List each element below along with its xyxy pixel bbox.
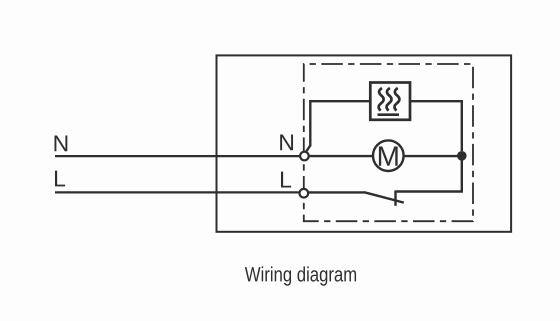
label L (terminal) [281,172,291,188]
wire: terminal L to switch [308,191,364,193]
wire: L supply line [55,191,299,193]
switch S1 blade [364,192,404,202]
caption: Wiring diagram [245,266,356,285]
terminal L [300,189,309,198]
label N (supply, left) [54,135,67,151]
wire: motor to node A [404,155,462,157]
wire: terminal N riser to heater branch [306,101,369,151]
terminal N [300,152,309,161]
label N (terminal) [280,134,293,150]
wire: heater to node A [411,101,462,151]
label L (supply, left) [55,171,65,187]
heater E1 [370,83,410,120]
motor M1 [373,140,404,171]
wire: right bus from node A down to switch corner [396,156,462,192]
wire: N supply line [55,155,300,157]
node A junction dot [457,151,467,161]
thermostat internal boundary (dash-dot box) [304,64,473,221]
enclosure outline [217,55,512,231]
switch S1 fixed contact [394,191,396,206]
wire: terminal N to motor [309,155,372,157]
